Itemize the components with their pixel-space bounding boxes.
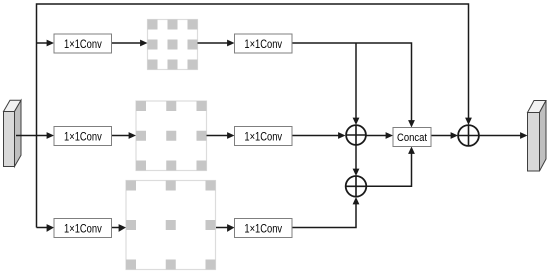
svg-text:1×1Conv: 1×1Conv: [64, 130, 102, 143]
svg-text:1×1Conv: 1×1Conv: [244, 130, 282, 143]
svg-text:1×1Conv: 1×1Conv: [244, 38, 282, 51]
svg-text:1×1Conv: 1×1Conv: [64, 222, 102, 235]
svg-text:Concat: Concat: [397, 131, 427, 144]
svg-text:1×1Conv: 1×1Conv: [244, 222, 282, 235]
svg-text:1×1Conv: 1×1Conv: [64, 38, 102, 51]
